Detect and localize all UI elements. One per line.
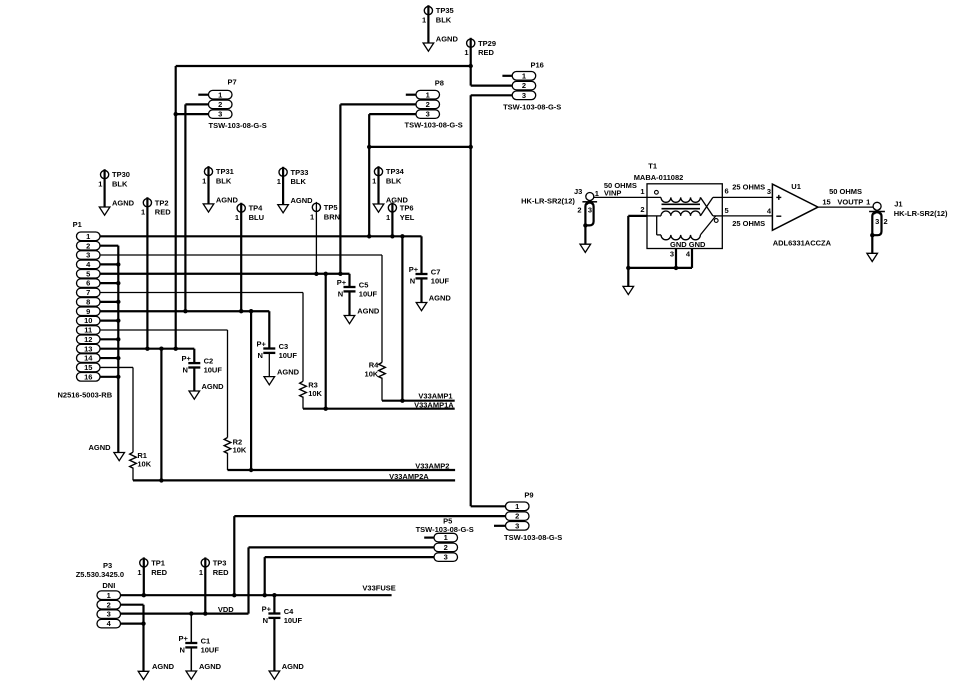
wire net V33AMP1A [303,272,455,411]
connector J3 (HK-LR-SR2(12)) input SMA [521,187,599,244]
ground AGND below P3 [138,662,174,680]
svg-text:AGND: AGND [112,199,135,208]
svg-text:1: 1 [137,568,141,577]
svg-text:1: 1 [199,568,203,577]
svg-text:12: 12 [84,335,92,344]
connector P16 (TSW-103-08-G-S) [503,61,561,112]
svg-text:2: 2 [577,205,581,214]
test point TP3 [199,557,229,613]
svg-text:TP3: TP3 [213,558,227,567]
ground AGND below TP35 [423,35,458,52]
ground AGND below T1 [623,286,634,294]
test point TP4 [235,203,264,312]
capacitor C5 10UF [337,278,380,316]
capacitor C3 10UF [257,339,300,376]
wire P1 pin3 row to R4 [100,255,382,362]
wire T1 pin6 to U1 pin3 (25 OHMS) [722,183,772,198]
svg-text:TSW-103-08-G-S: TSW-103-08-G-S [504,533,562,542]
test point TP30 [98,169,130,207]
ground AGND below C7 [416,303,427,311]
svg-text:5: 5 [86,269,90,278]
svg-text:1: 1 [141,208,145,217]
test point TP1 [137,557,167,595]
svg-text:2: 2 [218,100,222,109]
svg-text:DNI: DNI [102,581,115,590]
test point TP31 [202,166,234,204]
svg-text:TP33: TP33 [291,168,309,177]
svg-text:V33FUSE: V33FUSE [362,583,395,592]
svg-text:1: 1 [444,533,448,542]
svg-text:VDD: VDD [218,605,234,614]
svg-text:RED: RED [478,48,494,57]
svg-text:TP35: TP35 [436,6,454,15]
wire T1 ground pins 3,4 to AGND [626,216,692,287]
svg-text:J3: J3 [574,187,582,196]
svg-text:AGND: AGND [282,662,305,671]
svg-text:1: 1 [522,71,526,80]
svg-text:C7: C7 [431,268,441,277]
svg-text:10K: 10K [365,369,379,378]
svg-text:16: 16 [84,372,92,381]
wire net VDD row [121,605,249,616]
svg-text:3: 3 [86,251,90,260]
connector J1 (HK-LR-SR2(12)) output SMA [869,199,948,253]
ground AGND below C1 [186,671,197,679]
svg-text:1: 1 [640,187,644,196]
svg-text:2: 2 [444,543,448,552]
svg-text:BLK: BLK [386,177,402,186]
svg-text:P8: P8 [435,78,444,87]
wire P1 pin13 row to C2 [100,347,194,364]
op-amp U1 ADL6331ACCZA [772,182,831,247]
wire P1 even pins ground bus [100,246,121,453]
svg-text:GND GND: GND GND [670,240,706,249]
svg-text:10UF: 10UF [204,365,223,374]
capacitor C7 10UF [409,265,452,303]
svg-text:BLK: BLK [216,177,232,186]
connector P8 (TSW-103-08-G-S) [405,78,463,129]
svg-text:3: 3 [218,110,222,119]
svg-text:N: N [263,616,268,625]
svg-text:C2: C2 [204,357,214,366]
svg-text:V33AMP1: V33AMP1 [418,392,452,401]
svg-text:N: N [410,277,415,286]
svg-text:15: 15 [822,198,830,207]
svg-text:C3: C3 [279,342,289,351]
svg-text:MABA-011082: MABA-011082 [634,173,684,182]
wire P8 pin2 to P1 pin5 [340,104,416,273]
svg-text:8: 8 [86,297,90,306]
svg-text:11: 11 [84,326,92,335]
svg-text:5: 5 [725,206,729,215]
wire net V33AMP2 [228,311,456,472]
svg-text:10UF: 10UF [279,351,298,360]
svg-text:3: 3 [767,187,771,196]
svg-text:TP6: TP6 [400,203,414,212]
svg-text:N2516-5003-RB: N2516-5003-RB [58,391,113,400]
svg-text:U1: U1 [791,182,801,191]
wire net V33AMP2A [133,349,455,483]
svg-text:TP31: TP31 [216,167,234,176]
test point TP2 [141,197,171,348]
wire P5 pin2 to VDD [249,547,435,613]
wire TP29 / P16 pin2 [471,84,513,86]
svg-text:2: 2 [426,100,430,109]
wire P1 pin1 row (net V33AMP1 to C7) [100,234,422,274]
capacitor C2 10UF [182,354,225,391]
svg-text:1: 1 [515,502,519,511]
svg-text:BLK: BLK [112,180,128,189]
svg-text:Z5.530.3425.0: Z5.530.3425.0 [76,570,124,579]
svg-text:1: 1 [86,232,90,241]
svg-text:HK-LR-SR2(12): HK-LR-SR2(12) [521,197,575,206]
svg-text:YEL: YEL [400,213,415,222]
svg-text:AGND: AGND [216,196,239,205]
svg-text:2: 2 [86,241,90,250]
wire P1 pin7 row to R3 [100,293,303,382]
wire P8 pin1 stub [406,94,416,96]
svg-text:10UF: 10UF [359,289,378,298]
svg-text:R1: R1 [137,451,147,460]
svg-text:1: 1 [310,212,314,221]
svg-text:HK-LR-SR2(12): HK-LR-SR2(12) [894,209,948,218]
svg-text:3: 3 [107,610,111,619]
svg-text:3: 3 [444,553,448,562]
svg-text:1: 1 [422,16,426,25]
svg-text:2: 2 [640,205,644,214]
svg-text:TSW-103-08-G-S: TSW-103-08-G-S [209,121,267,130]
svg-text:C4: C4 [284,607,294,616]
wire P16 pin3 down to P9 pin1 [471,95,513,506]
connector P7 (TSW-103-08-G-S) [209,78,267,130]
wire net V33FUSE row [121,583,396,597]
wire P1 pin15 row to R1 [100,367,133,452]
svg-text:1: 1 [98,180,102,189]
ground AGND below J3 [580,244,591,252]
svg-text:3: 3 [522,91,526,100]
svg-text:V33AMP2A: V33AMP2A [389,472,429,481]
svg-text:C5: C5 [359,281,369,290]
svg-text:TP34: TP34 [386,167,405,176]
transformer T1 MABA-011082 [634,162,729,259]
resistor R2 10K [224,437,247,470]
svg-text:N: N [180,646,185,655]
svg-text:1: 1 [107,591,111,600]
connector P1 (N2516-5003-RB, 16-pin header) [58,220,113,400]
svg-text:RED: RED [151,568,167,577]
wire P1 pin5 row to C5 [100,272,350,287]
svg-text:1: 1 [464,48,468,57]
svg-text:1: 1 [386,213,390,222]
wire T1 pin5 to U1 pin4 (25 OHMS) [722,207,772,229]
svg-text:P+: P+ [409,265,419,274]
svg-text:TP1: TP1 [151,558,165,567]
svg-text:T1: T1 [648,162,657,171]
svg-text:AGND: AGND [89,443,112,452]
svg-text:25 OHMS: 25 OHMS [732,219,765,228]
svg-text:1: 1 [866,198,870,207]
svg-text:J1: J1 [894,199,902,208]
wire top loop P7.3/TP29 net [174,64,473,349]
svg-text:AGND: AGND [202,382,225,391]
connector P3 (Z5.530.3425.0, DNI) [76,561,124,628]
ground AGND below J1 [867,253,878,261]
wire P16 pin1 stub [502,75,512,77]
svg-text:25 OHMS: 25 OHMS [732,183,765,192]
svg-text:P+: P+ [262,604,272,613]
svg-text:AGND: AGND [199,662,222,671]
svg-text:RED: RED [213,568,229,577]
ground AGND below TP34 [373,196,408,213]
svg-text:P+: P+ [337,278,347,287]
svg-text:AGND: AGND [291,196,314,205]
svg-text:3: 3 [588,205,592,214]
svg-text:TP29: TP29 [478,39,496,48]
svg-text:VINP: VINP [604,188,622,197]
wire P5 pin1 stub [424,536,434,538]
wire P7 pin2 to P1 pin9 [185,104,208,311]
svg-text:AGND: AGND [429,293,452,302]
svg-text:1: 1 [218,90,222,99]
svg-text:3: 3 [515,521,519,530]
ground AGND below TP30 [99,199,134,216]
wire P1 pin11 row to R2 [100,330,228,438]
test point TP33 [277,167,309,205]
svg-text:13: 13 [84,344,92,353]
capacitor C4 10UF [262,595,305,671]
svg-text:1: 1 [202,177,206,186]
svg-text:14: 14 [84,354,93,363]
svg-text:AGND: AGND [357,307,380,316]
svg-text:VOUTP: VOUTP [837,198,863,207]
svg-text:BLK: BLK [291,177,307,186]
svg-text:BLU: BLU [249,213,264,222]
svg-text:TP5: TP5 [324,203,338,212]
svg-text:6: 6 [725,187,729,196]
svg-text:1: 1 [277,177,281,186]
wire U1 output (VOUTP, 50 OHMS) to J1 [818,187,874,207]
test point TP5 [310,202,340,274]
svg-text:P3: P3 [103,561,112,570]
svg-text:P7: P7 [228,78,237,87]
svg-text:2: 2 [884,217,888,226]
svg-text:TP4: TP4 [249,204,264,213]
ground AGND below C5 [344,316,355,324]
svg-text:P1: P1 [73,220,82,229]
resistor R1 10K [130,451,152,481]
svg-text:P+: P+ [179,634,189,643]
wire P1 pin9 row to C3 [100,309,269,348]
wire J3 to T1 pin1 (VINP) [593,181,661,197]
svg-text:AGND: AGND [152,662,175,671]
wire P9 pin2 trunk [234,516,505,595]
svg-text:1: 1 [426,90,430,99]
svg-text:R4: R4 [369,361,379,370]
resistor R4 10K [365,361,386,401]
ground AGND below P1 pin bus [89,443,125,461]
svg-text:10K: 10K [233,446,247,455]
wire P3 pin2/pin4 to AGND [121,605,146,672]
wire P9 pin3 stub [494,525,506,527]
svg-text:TSW-103-08-G-S: TSW-103-08-G-S [503,102,561,111]
svg-text:9: 9 [86,307,90,316]
svg-text:BLK: BLK [436,16,452,25]
svg-text:1: 1 [235,213,239,222]
svg-text:N: N [258,351,263,360]
wire P7 pin1 stub [198,94,208,96]
svg-text:1: 1 [595,189,599,198]
svg-text:V33AMP1A: V33AMP1A [414,401,454,410]
svg-text:AGND: AGND [277,368,300,377]
ground AGND below C2 [189,391,200,399]
svg-text:N: N [183,366,188,375]
svg-text:P+: P+ [257,339,267,348]
svg-text:15: 15 [84,363,92,372]
svg-text:RED: RED [155,208,171,217]
svg-text:TP30: TP30 [112,170,130,179]
svg-text:1: 1 [372,177,376,186]
svg-text:10UF: 10UF [201,645,220,654]
svg-text:3: 3 [875,217,879,226]
svg-text:AGND: AGND [436,35,459,44]
svg-text:10K: 10K [137,460,151,469]
wire P5 pin3 to V33FUSE [265,557,434,595]
ground AGND below C3 [264,377,275,385]
svg-text:3: 3 [670,249,674,258]
resistor R3 10K [300,381,323,409]
svg-text:2: 2 [522,81,526,90]
test point TP35 [422,5,454,43]
svg-text:BRN: BRN [324,212,340,221]
svg-text:V33AMP2: V33AMP2 [415,462,449,471]
test point TP29 [464,38,496,86]
ground AGND below TP33 [278,196,313,213]
svg-text:2: 2 [515,512,519,521]
test point TP34 [372,166,405,204]
connector P9 (TSW-103-08-G-S) [504,491,562,542]
svg-text:10UF: 10UF [431,276,450,285]
svg-text:7: 7 [86,288,90,297]
ground AGND below TP31 [203,196,238,213]
svg-text:6: 6 [86,279,90,288]
svg-text:10: 10 [84,316,92,325]
svg-text:50 OHMS: 50 OHMS [829,187,862,196]
ground AGND below C4 [269,671,280,679]
svg-text:N: N [338,290,343,299]
svg-text:C1: C1 [201,637,211,646]
test point TP6 [386,202,415,236]
svg-text:P9: P9 [524,491,533,500]
svg-text:P+: P+ [182,354,192,363]
wire net V33AMP1 [382,236,455,403]
capacitor C1 10UF [179,614,222,671]
svg-text:P16: P16 [531,61,544,70]
svg-text:2: 2 [107,600,111,609]
svg-text:10UF: 10UF [284,616,303,625]
connector P5 (TSW-103-08-G-S) [416,517,474,562]
svg-text:TSW-103-08-G-S: TSW-103-08-G-S [405,121,463,130]
svg-text:TP2: TP2 [155,198,169,207]
svg-text:10K: 10K [308,389,322,398]
wire P8 pin3 to P1 pin1 [367,114,473,236]
svg-text:ADL6331ACCZA: ADL6331ACCZA [773,238,832,247]
svg-text:3: 3 [426,110,430,119]
